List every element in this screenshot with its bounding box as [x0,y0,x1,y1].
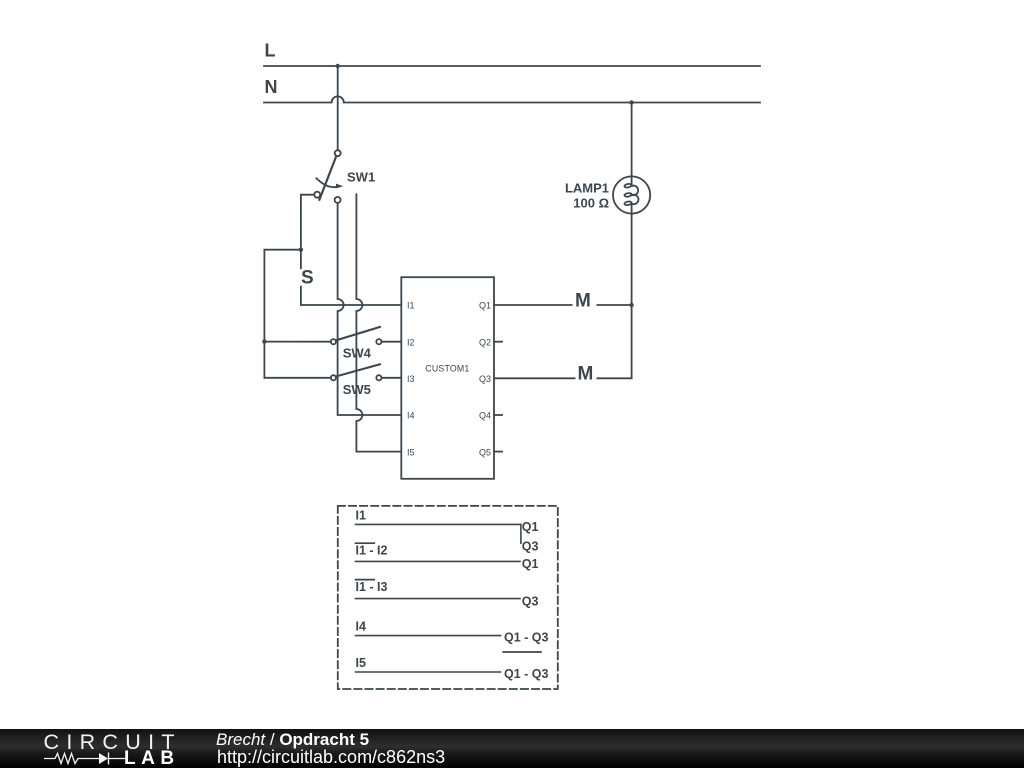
wire lamp to Q1 junction [631,214,633,305]
IC CUSTOM1 body [401,277,494,479]
junction dot on N (lamp branch) [629,100,633,104]
svg-text:Q1 - Q3: Q1 - Q3 [504,631,549,645]
wire Q3 to lamp branch corner [494,305,632,378]
svg-text:Q3: Q3 [522,594,539,608]
wire L to SW1 top [337,66,339,150]
svg-text:I5: I5 [356,656,366,670]
junction dot S node [299,248,303,252]
svg-text:SW1: SW1 [347,170,375,185]
wire SW1 middle contact to I4 (hops over I1 line) [338,203,402,415]
wire SW1 left contact to S junction [301,195,314,250]
pin stub Q2 [494,341,502,343]
label M motor on Q3 [576,364,597,385]
legend dashed box [338,506,558,689]
wire left rail to SW5 [264,377,331,379]
junction dot on L [336,64,340,68]
svg-text:CUSTOM1: CUSTOM1 [425,364,469,374]
footer bar [0,729,1024,768]
lamp LAMP1 [613,176,650,213]
svg-text:I5: I5 [407,447,415,457]
legend row 5: I5 -> not(Q1 - Q3) [356,652,549,681]
svg-text:I2: I2 [407,337,415,347]
wire to I5 (hops over I1 and I4 lines) [356,194,401,451]
svg-text:Q3: Q3 [479,374,491,384]
url [217,747,445,768]
title Brecht / Opdracht 5 [216,730,369,750]
logo CIRCUIT text [44,730,182,755]
wire junction to S label [300,250,302,269]
svg-text:S: S [301,268,314,289]
svg-text:Q1 - Q3: Q1 - Q3 [504,667,549,681]
net N rail (with hop over SW1 feed wire) [264,96,760,102]
pin stub Q5 [494,451,502,453]
svg-text:LAMP1: LAMP1 [565,181,609,196]
legend row 2: not I1 - I2 -> Q1 [356,543,539,571]
svg-text:M: M [578,364,594,385]
svg-text:Q1: Q1 [522,520,539,534]
label M motor on Q1 [573,290,597,311]
legend row 1: I1 -> Q1,Q3 [356,509,539,554]
label LAMP1 value [565,181,609,211]
svg-text:Q3: Q3 [522,540,539,554]
svg-text:I1: I1 [356,509,366,523]
switch SW5 [331,364,382,380]
svg-text:Q5: Q5 [479,447,491,457]
wire left rail to SW4 [264,341,331,343]
svg-text:Q1: Q1 [479,301,491,311]
wire SW5 to I3 [382,377,402,379]
svg-text:SW4: SW4 [343,346,372,361]
svg-text:SW5: SW5 [343,382,371,397]
junction dot left rail [262,339,266,343]
wire left rail down [263,342,265,378]
legend row 4: I4 -> Q1 - Q3 [356,620,549,645]
svg-text:L: L [265,41,276,61]
switch SW1 [314,150,343,203]
svg-text:100 Ω: 100 Ω [573,196,609,211]
svg-text:Q4: Q4 [479,411,491,421]
svg-text:N: N [265,77,278,97]
svg-text:I1 - I3: I1 - I3 [356,580,388,594]
svg-text:I3: I3 [407,374,415,384]
switch SW4 [331,327,382,344]
legend row 3: not I1 - I3 -> Q3 [356,580,539,609]
svg-text:Q2: Q2 [479,337,491,347]
svg-text:I4: I4 [407,411,415,421]
wire S to pin I1 [301,287,401,305]
wire SW4 to I2 [382,341,402,343]
net L rail [264,65,760,67]
junction dot Q1 node [629,303,633,307]
wire Q1 to lamp junction [494,304,632,306]
svg-text:I1: I1 [407,301,415,311]
logo resistor-diode squiggle [44,751,128,765]
svg-text:I4: I4 [356,620,366,634]
svg-text:Q1: Q1 [522,557,539,571]
svg-text:I1 - I2: I1 - I2 [356,544,388,558]
wire N to lamp [631,103,633,177]
pin stub Q4 [494,414,502,416]
wire junction to left rail [264,250,301,342]
svg-text:M: M [575,290,591,311]
logo LAB text [124,748,180,768]
